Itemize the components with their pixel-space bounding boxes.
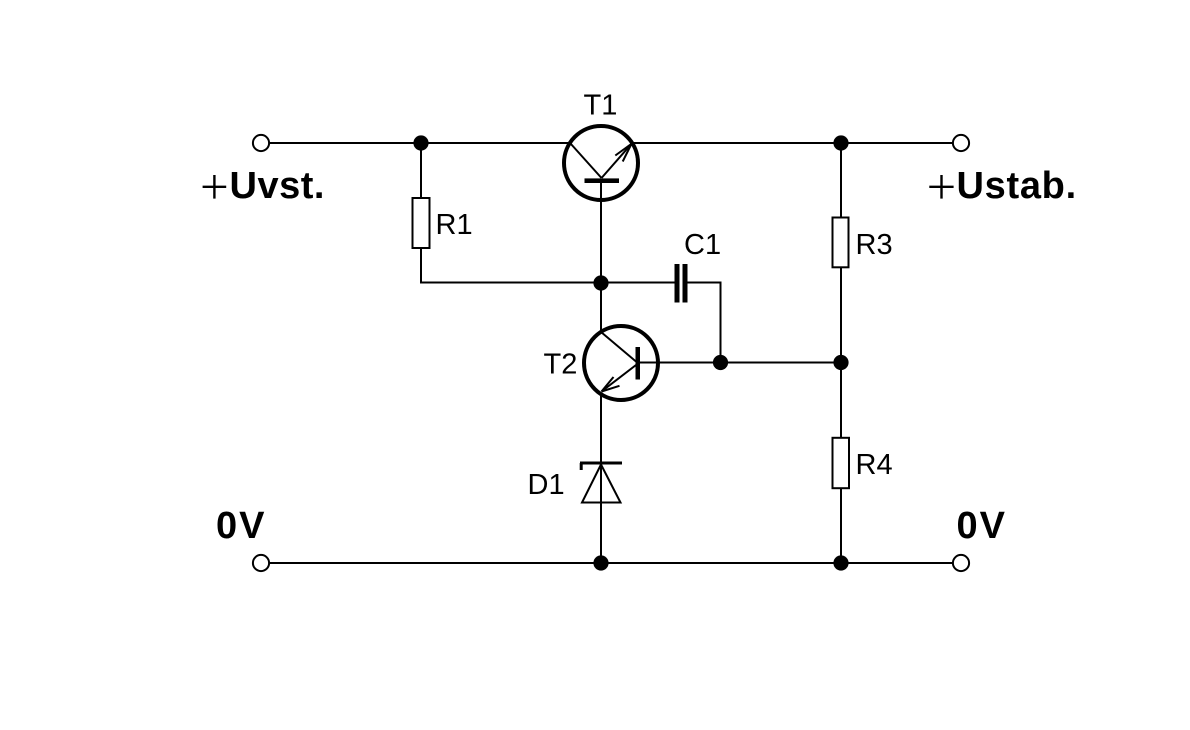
svg-text:C1: C1 (684, 229, 721, 261)
junction R3/R4 node (833, 355, 848, 370)
resistor R1 (413, 198, 430, 248)
terminal 0V left (253, 555, 269, 571)
junction bottom rail / D1 (593, 555, 608, 570)
label +Ustab. (929, 175, 953, 199)
junction base node (593, 275, 608, 290)
wire R1 bottom lead (420, 248, 601, 283)
resistor R3 (833, 218, 849, 268)
wire bottom rail (269, 562, 952, 564)
terminal +Ustab output (953, 135, 969, 151)
wire T2 base to R3/R4 node (638, 362, 841, 364)
svg-text:0V: 0V (957, 505, 1007, 547)
junction C1 / base wire (713, 355, 728, 370)
wire T2 emitter to ground rail (600, 394, 602, 563)
diode D1 (zener) (580, 463, 622, 503)
label +Uvst. (203, 175, 227, 199)
svg-text:Ustab.: Ustab. (957, 165, 1077, 207)
transistor T2 (584, 326, 658, 400)
wire R4 bottom lead (840, 488, 842, 563)
svg-text:Uvst.: Uvst. (230, 165, 325, 207)
wire R3 bottom lead (840, 267, 842, 362)
transistor T1 (564, 126, 638, 200)
wire R3 top lead (840, 143, 842, 218)
wire T1 base lead (600, 183, 602, 283)
junction top rail / R1 (413, 135, 428, 150)
wire top rail right segment (632, 142, 953, 144)
svg-text:R4: R4 (856, 449, 893, 481)
svg-text:T2: T2 (544, 349, 578, 381)
wire base node to C1 (601, 282, 675, 284)
svg-text:R3: R3 (856, 229, 893, 261)
wire R1 top lead (420, 143, 422, 198)
resistor R4 (833, 438, 850, 488)
svg-text:R1: R1 (436, 209, 473, 241)
junction bottom rail / R4 (833, 555, 848, 570)
wire top rail left segment (269, 142, 570, 144)
junction top rail / R3 (833, 135, 848, 150)
wire C1 to base wire (688, 282, 722, 364)
wire base node to T2 collector (600, 283, 602, 332)
svg-text:0V: 0V (216, 505, 266, 547)
svg-text:D1: D1 (528, 469, 565, 501)
terminal 0V right (953, 555, 969, 571)
capacitor C1 (675, 264, 688, 303)
wire R4 top lead (840, 363, 842, 438)
terminal +Uvst input (253, 135, 269, 151)
svg-text:T1: T1 (584, 89, 618, 121)
